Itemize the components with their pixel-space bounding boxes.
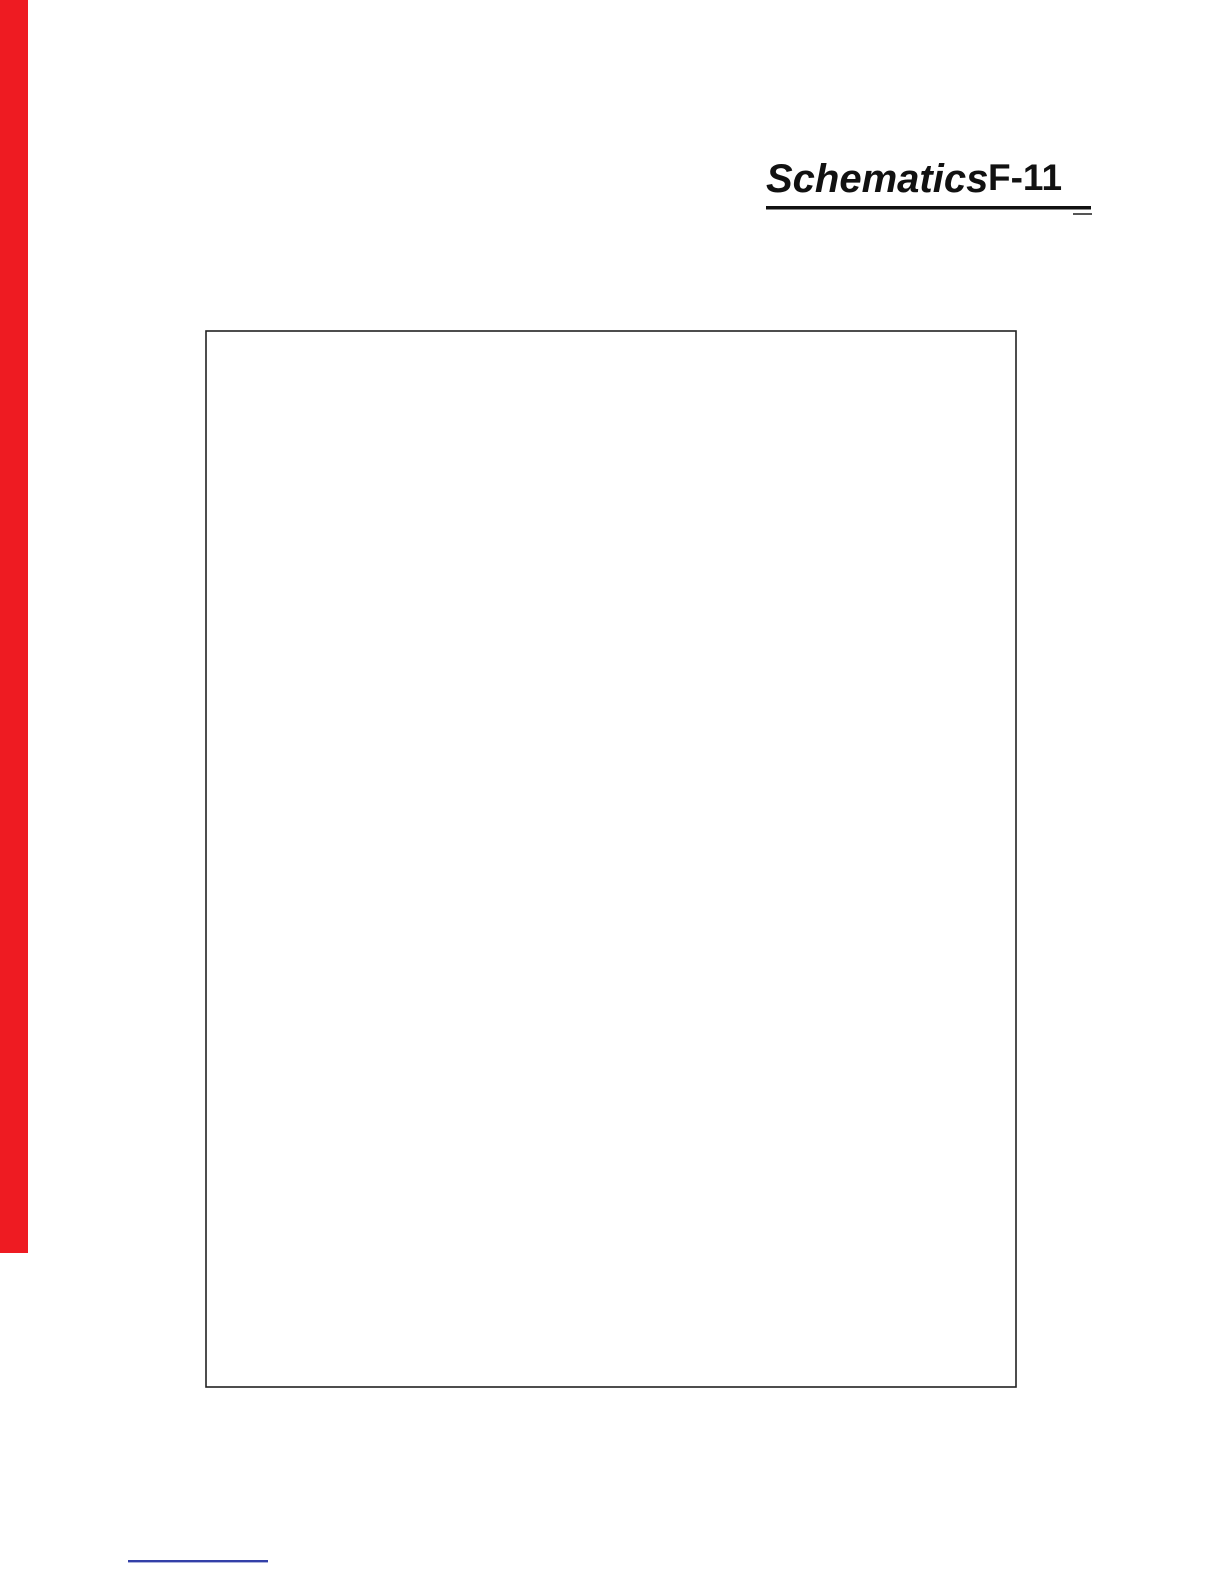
schematic frame (206, 331, 1016, 1387)
blue footer line (128, 1560, 268, 1562)
svg-text:F-11: F-11 (988, 157, 1062, 198)
red left stripe (0, 0, 28, 1253)
svg-text:Schematics: Schematics (766, 157, 988, 201)
title underline tick (1073, 213, 1092, 215)
title underline (766, 206, 1091, 210)
